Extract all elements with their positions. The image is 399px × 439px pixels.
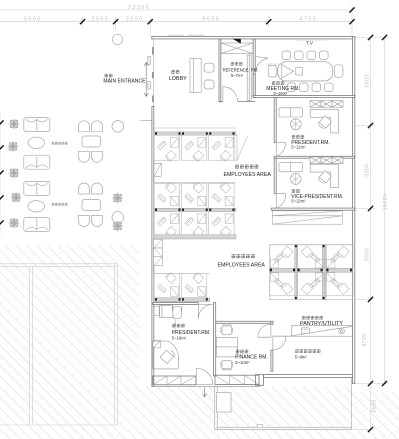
outdoor table B (82, 200, 101, 211)
president bottom room desk (160, 305, 173, 317)
left block2 posts (155, 298, 208, 300)
pantry counter (273, 326, 353, 337)
outdoor table A (82, 136, 101, 147)
left wall cabinet column with X boxes (154, 239, 163, 265)
label open reception cn (52, 142, 68, 145)
outdoor planter circle B (112, 212, 124, 224)
tick right dim 19720 (368, 381, 373, 386)
tick outer dim top (382, 35, 387, 40)
block2 central partition band (154, 208, 236, 211)
main entrance arrow (144, 63, 148, 97)
finance room desk (216, 337, 237, 357)
right block posts (270, 245, 352, 299)
finance room east door arc (258, 324, 271, 337)
president room west wall (274, 97, 276, 142)
tick outer dim bottom (382, 381, 387, 386)
left block2 bottom band (154, 298, 210, 302)
vice-president L desk (310, 164, 338, 188)
meeting room bottom wall / president top (253, 96, 355, 98)
left facade glass mullion line (153, 39, 155, 107)
tv cabinet against wall (297, 39, 326, 40)
lawn rectangle in yard: top edge (0, 264, 118, 425)
tick right dim 5000 (368, 123, 373, 128)
cubicle C2 (181, 211, 207, 237)
right vertical dimension line inner (370, 38, 372, 430)
flower plant 6 (113, 193, 123, 203)
label meeting cn (272, 81, 284, 85)
flower plant 4 (11, 193, 21, 203)
right block central band (270, 268, 353, 272)
outdoor chair cluster B bottom chairs (79, 216, 103, 227)
label equipment cn (295, 349, 320, 353)
top exterior wall (152, 37, 355, 39)
svg-text:EMPLOYEES AREA: EMPLOYEES AREA (224, 172, 272, 178)
president bottom room top wall (153, 303, 198, 305)
outdoor sofa 2 (24, 155, 50, 169)
cubicle A3 (209, 135, 235, 161)
left wall entrance pier 2 (152, 72, 154, 79)
window dashes on lobby top wall (168, 34, 184, 36)
employees area 1 row1 partition band (154, 132, 236, 135)
flower plant 1 (9, 119, 19, 129)
president room desk chair (319, 116, 332, 129)
meeting room conference table (278, 62, 333, 81)
president bottom room corner shelf box (153, 341, 161, 348)
terrace wall bottom horizontal (217, 427, 351, 429)
right vertical dimension line outer (384, 38, 386, 384)
svg-text:2000: 2000 (126, 17, 144, 23)
lawn rectangle divider (29, 267, 31, 425)
cubicle E1 top row (270, 245, 297, 268)
bottom sill diagonal boxes left group (153, 376, 196, 385)
label reference cn (231, 62, 243, 66)
president room L desk (310, 109, 338, 132)
reference room left wall (219, 39, 221, 102)
entrance porch line (141, 119, 152, 121)
label open rest cn (52, 203, 68, 206)
meeting table screen triangle (282, 65, 294, 78)
left wall planter box between rows (154, 163, 161, 176)
svg-text:5~7m²: 5~7m² (231, 73, 244, 78)
vice-president bottom wall (271, 208, 355, 210)
cubicle D1 (mirrored) (154, 273, 180, 299)
president bottom room corner chair (160, 350, 174, 364)
label vice president cn (292, 189, 300, 193)
cubicle B3 (mirrored) (209, 183, 235, 209)
outdoor sofa 1 (24, 118, 50, 132)
svg-text:T.V: T.V (306, 41, 314, 46)
extension lines top (83, 5, 353, 37)
left cropped dimension ticks (0, 112, 4, 235)
president/vice-president divider wall (274, 156, 355, 158)
terrace east edge line (351, 378, 353, 427)
svg-text:5~12m²: 5~12m² (291, 144, 306, 149)
president/finance divider wall (214, 303, 216, 376)
bottom protruding wall vertical (215, 386, 217, 429)
outdoor sofa 3 (24, 181, 50, 195)
cubicle E5 (298, 272, 325, 296)
label main entrance cn (105, 74, 113, 78)
cubicle A2 (181, 135, 207, 161)
pantry west wall upper pier (271, 321, 273, 324)
svg-text:5000: 5000 (365, 247, 371, 260)
svg-text:PANTRY/UTILITY: PANTRY/UTILITY (300, 321, 343, 327)
equipment room bottom step (256, 375, 264, 386)
block2 bottom band (154, 235, 236, 239)
terrace step bump (257, 424, 263, 427)
flower plant 2 (8, 142, 18, 152)
president bottom room desk chair (172, 306, 182, 331)
finance room top wall (216, 321, 273, 323)
entrance sliding leaf 2 (148, 82, 150, 90)
lawn rectangle bottom edge (0, 424, 118, 426)
bottom sill wall president room (153, 376, 196, 385)
svg-text:5~10m²: 5~10m² (235, 360, 250, 365)
terrace entry arrow (203, 388, 207, 398)
outdoor planter circle A (112, 121, 124, 133)
tick 2000/2000 (113, 19, 118, 24)
tick right dim 15000 (368, 297, 373, 302)
outdoor chair cluster A top chairs (79, 121, 90, 132)
dimension line segments (top inner) (0, 21, 352, 23)
svg-text:6600: 6600 (203, 17, 221, 23)
reference room bottom wall (238, 101, 255, 103)
row1 top line (154, 127, 236, 129)
svg-text:23300: 23300 (128, 5, 150, 11)
reference room bottom wall left pier (219, 101, 223, 103)
finance room chair 2 (221, 360, 233, 369)
reference room bookshelf (247, 55, 251, 101)
tick right dim 0 (368, 35, 373, 40)
svg-text:EMPLOYEES AREA: EMPLOYEES AREA (218, 262, 266, 268)
vice-president sofa (279, 163, 302, 172)
svg-text:19720: 19720 (383, 194, 389, 211)
label finance cn (236, 349, 248, 353)
meeting table console (296, 68, 303, 76)
meeting chair left end (268, 66, 277, 78)
right exterior wall (353, 37, 355, 384)
label president2 cn (172, 324, 184, 328)
cubicle C1 (154, 211, 180, 237)
cubicle C3 (209, 211, 235, 237)
finance room chair 1 (221, 325, 233, 334)
svg-text:4720: 4720 (362, 333, 368, 346)
svg-text:REFERENCE. RM.: REFERENCE. RM. (223, 68, 259, 73)
right block vertical band 1 (295, 245, 298, 300)
tick right dim bottom (368, 427, 373, 432)
bottom sill wall finance room (215, 375, 259, 384)
president bottom room side sofa (154, 307, 159, 316)
equipment room door arc (273, 336, 286, 350)
svg-text:MAIN ENTRANCE: MAIN ENTRANCE (103, 78, 146, 84)
outdoor oval table 2 (28, 201, 45, 212)
tick 6600/4700 (266, 19, 271, 24)
lobby chair 2 (204, 80, 214, 89)
outdoor chair cluster B top chairs (79, 183, 90, 194)
left wall entrance pier 3 (152, 96, 154, 103)
tick 6000/2000 (80, 19, 85, 24)
black triangle mark on top wall (233, 39, 241, 44)
svg-text:MEETING RM: MEETING RM (267, 63, 284, 67)
svg-text:3~19m²: 3~19m² (273, 91, 288, 96)
meeting room door arc (255, 57, 268, 73)
block2 band posts (155, 209, 235, 211)
bottom sill diagonal boxes right group (215, 375, 259, 384)
credenza band below vice-president room (272, 211, 342, 224)
cubicle D2 (mirrored) (181, 273, 207, 299)
row1 band posts (155, 132, 235, 134)
dimension line 23300 (top outer) (0, 9, 352, 11)
svg-text:4700: 4700 (300, 17, 318, 23)
employees area 2 left block top line (154, 273, 210, 275)
bottom exterior wall line (152, 385, 261, 387)
pantry west wall lower (271, 350, 273, 371)
president bottom room corner desk (153, 341, 179, 369)
meeting room left wall lower (253, 74, 255, 97)
svg-text:2000: 2000 (92, 17, 110, 23)
cubicle B1 (mirrored) (154, 183, 180, 209)
reference room right wall (253, 39, 255, 98)
outdoor sofa 4 (24, 218, 50, 232)
lobby reception desk (190, 58, 201, 92)
label lobby cn (171, 70, 179, 74)
entrance sliding leaf 1 (148, 57, 150, 65)
svg-text:5~16m²: 5~16m² (172, 336, 187, 341)
president bottom room bottom door arc (196, 368, 213, 384)
cubicle E6 (326, 272, 353, 296)
svg-text:5~9m²: 5~9m² (295, 354, 308, 359)
president room plant (290, 119, 301, 130)
svg-text:6000: 6000 (24, 17, 42, 23)
tick right dim 10000 (368, 206, 373, 211)
vice-president desk chair (319, 171, 332, 184)
label employees 2 cn (232, 254, 255, 258)
meeting chairs top row (282, 51, 328, 60)
entrance circle column (112, 34, 122, 44)
meeting chairs bottom row (287, 83, 333, 92)
label pantry cn (302, 316, 323, 320)
left wall entrance pier 1 (152, 47, 154, 55)
tick 23300 right end (349, 7, 354, 12)
label president cn (292, 135, 304, 139)
flower plant 5 (9, 218, 19, 228)
terrace planter box (216, 393, 231, 413)
vice-president room door arc (276, 194, 285, 208)
meeting chair right end (334, 65, 343, 78)
svg-text:2686: 2686 (372, 399, 378, 412)
cubicle B2 (mirrored) (181, 183, 207, 209)
president room sofa (279, 108, 302, 117)
label employees 1 cn (235, 164, 258, 168)
svg-text:5~12m²: 5~12m² (291, 198, 306, 203)
outdoor oval table 1 (28, 137, 45, 148)
flower plant 7 (113, 221, 123, 231)
paved outdoor area hatch (left yard + bottom terrace) (0, 246, 399, 439)
flower plant 3 (9, 168, 19, 178)
tick 2000/6600 (148, 19, 153, 24)
svg-text:LOBBY: LOBBY (169, 76, 187, 82)
reference room door arc (223, 87, 238, 102)
employees area 1 block2 top line (154, 182, 236, 184)
vice-president room top cabinets (310, 157, 321, 163)
cubicle E2 (298, 245, 325, 269)
lawn rectangle right edge (114, 264, 116, 425)
lobby chair 1 (204, 63, 214, 72)
reference room top cabinet with X (221, 43, 253, 54)
svg-text:5000: 5000 (365, 163, 371, 176)
left exterior wall lower (152, 106, 154, 386)
cubicle E3 (326, 245, 353, 268)
president bottom room top door arc (198, 305, 212, 319)
president room top cabinets (310, 101, 321, 107)
right extension lines (352, 38, 389, 430)
cubicle A1 (154, 135, 180, 161)
svg-text:5000: 5000 (365, 74, 371, 87)
employees area 2 right block outline (270, 245, 353, 300)
equipment room bottom wall (264, 375, 353, 378)
vice-president west wall (274, 158, 276, 193)
outdoor chair cluster A bottom chairs (79, 151, 103, 162)
cubicle E4 bottom row (mirrored) (270, 272, 297, 296)
tick 4700 right end (349, 19, 354, 24)
right block vertical band 2 (322, 245, 326, 300)
vice-president plant (290, 174, 301, 185)
row1 right divider diagonal (234, 135, 248, 160)
president room door arc (276, 142, 285, 156)
